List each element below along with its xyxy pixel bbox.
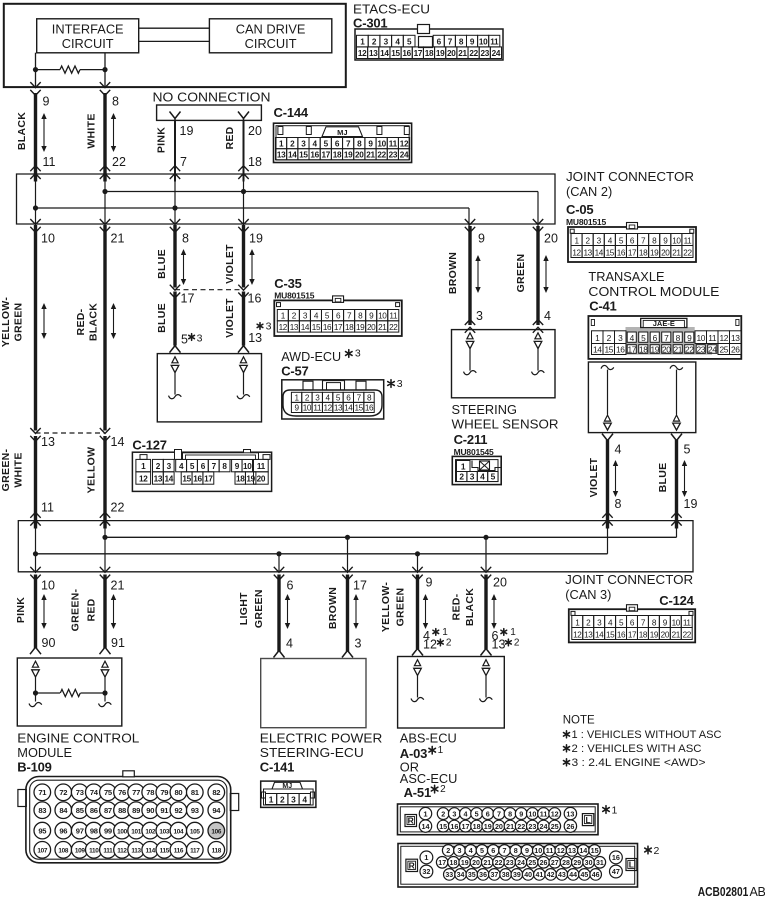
- svg-text:11: 11: [708, 333, 717, 343]
- svg-text:28: 28: [562, 860, 570, 867]
- svg-text:24: 24: [517, 860, 525, 867]
- svg-text:8: 8: [222, 462, 227, 471]
- svg-text:118: 118: [212, 848, 222, 855]
- svg-text:99: 99: [104, 826, 112, 835]
- svg-text:11: 11: [490, 37, 499, 46]
- svg-text:19: 19: [246, 475, 255, 484]
- svg-text:13: 13: [583, 248, 592, 257]
- C-57 note star3: [388, 378, 403, 390]
- svg-text:85: 85: [76, 806, 85, 815]
- terminating resistor ETACS: [36, 66, 106, 73]
- terminal fork pin 20: [238, 112, 249, 123]
- wire YELLOW pin 14 to 22: [103, 436, 106, 529]
- svg-text:7: 7: [212, 462, 217, 471]
- svg-text:C-41: C-41: [589, 299, 616, 314]
- svg-text:NOTE: NOTE: [563, 715, 595, 727]
- svg-text:12: 12: [719, 333, 728, 343]
- svg-text:6: 6: [491, 846, 495, 855]
- engine control module box: [17, 658, 122, 726]
- wire GREEN-WHITE pin 13 to 11: [34, 436, 37, 529]
- wire GREEN-RED pin 21 to 91: [103, 575, 106, 649]
- svg-text:GREEN: GREEN: [13, 303, 25, 342]
- arrow YELLOW-GREEN: [41, 303, 46, 339]
- connector arrow w6 CAN3 bottom: [342, 567, 352, 580]
- svg-text:9: 9: [43, 95, 50, 109]
- svg-text:16: 16: [617, 248, 626, 257]
- svg-text:22: 22: [377, 151, 386, 160]
- svg-text:AB: AB: [750, 885, 765, 897]
- wire w3 through CAN2 joint connector: [174, 174, 176, 224]
- svg-text:21: 21: [111, 232, 125, 246]
- svg-text:20: 20: [662, 345, 671, 355]
- arrow BROWN CAN2: [475, 255, 480, 293]
- svg-text:19: 19: [436, 49, 445, 58]
- svg-text:GREEN: GREEN: [515, 254, 527, 293]
- svg-text:ETACS-ECU: ETACS-ECU: [353, 2, 430, 17]
- arrow VIOLET: [249, 249, 254, 285]
- connector arrow w1 CAN2 bottom: [30, 219, 40, 232]
- svg-text:8: 8: [508, 809, 512, 818]
- connector C-144: [274, 123, 412, 162]
- junction dot w4 line2: [241, 189, 246, 194]
- wire GREEN pin 20 to 4: [536, 226, 539, 325]
- svg-text:12: 12: [572, 248, 581, 257]
- svg-text:10: 10: [377, 139, 386, 148]
- svg-text:22: 22: [683, 630, 692, 639]
- svg-text:15: 15: [591, 846, 599, 855]
- wire RED pin 20 to 18: [243, 120, 245, 181]
- wire BROWN pin 9 to 3: [468, 226, 471, 325]
- svg-text:14: 14: [301, 323, 310, 332]
- svg-text:9: 9: [368, 139, 373, 148]
- svg-text:23: 23: [389, 151, 398, 160]
- wire RED-BLACK pin 21 to 14: [103, 225, 106, 431]
- svg-text:5: 5: [480, 846, 484, 855]
- AWD-ECU box: [157, 354, 261, 422]
- wire label GREEN-WHITE: [0, 448, 25, 491]
- wire PINK pin 19 to 7: [174, 120, 176, 181]
- terminal fork transaxle pin 4: [602, 434, 613, 445]
- svg-text:107: 107: [37, 848, 48, 855]
- svg-text:13: 13: [277, 151, 286, 160]
- svg-text:25: 25: [551, 822, 559, 831]
- svg-text:24: 24: [708, 345, 717, 355]
- svg-text:MU801515: MU801515: [274, 291, 314, 301]
- svg-text:103: 103: [159, 828, 170, 835]
- wire VIOLET pin 19 to 16: [242, 225, 245, 288]
- svg-text:CAN DRIVE: CAN DRIVE: [236, 22, 306, 37]
- arrow GREEN CAN2: [543, 255, 548, 293]
- wire VIOLET pin 4 to 8: [606, 440, 609, 529]
- svg-text:ACB02801: ACB02801: [698, 885, 749, 897]
- wire label RED-BLACK bottom: [451, 588, 477, 626]
- electric power steering labels: [260, 731, 383, 775]
- C-35 label: [274, 276, 314, 301]
- terminating resistor ECM: [36, 689, 106, 696]
- svg-text:93: 93: [191, 806, 199, 815]
- AWD-ECU label: [281, 348, 361, 379]
- connector C-41: [588, 316, 741, 359]
- svg-text:BROWN: BROWN: [447, 252, 459, 294]
- svg-text:22: 22: [111, 501, 125, 515]
- svg-text:10: 10: [303, 404, 312, 413]
- svg-text:17: 17: [204, 475, 213, 484]
- arrow VIOLET transaxle: [613, 460, 618, 497]
- svg-text:C-141: C-141: [260, 760, 294, 775]
- svg-text:13: 13: [334, 404, 343, 413]
- svg-text:5: 5: [491, 472, 496, 482]
- svg-text:5: 5: [324, 139, 329, 148]
- svg-text:2: 2: [441, 809, 445, 818]
- connector arrow w7 CAN3 bottom: [412, 567, 422, 580]
- CAN drive circuit box: [209, 19, 331, 53]
- svg-text:12: 12: [139, 475, 148, 484]
- svg-text:20: 20: [248, 124, 262, 138]
- svg-text:18: 18: [345, 323, 354, 332]
- svg-text:17: 17: [181, 292, 195, 306]
- svg-text:15: 15: [182, 475, 191, 484]
- connector arrow GREEN CAN2 bottom: [533, 219, 543, 232]
- arrow RED-BLACK: [111, 303, 116, 339]
- arrow BROWN bottom: [353, 594, 358, 629]
- connector arrow w2 C-127: [100, 428, 110, 441]
- wire VIOLET pin 16 to 13: [242, 292, 245, 346]
- svg-text:47: 47: [612, 867, 620, 876]
- svg-text:82: 82: [212, 788, 220, 797]
- svg-text:9: 9: [235, 462, 240, 471]
- svg-text:3: 3: [618, 333, 623, 343]
- svg-text:21: 21: [672, 630, 681, 639]
- svg-text:ELECTRIC POWER: ELECTRIC POWER: [260, 731, 383, 746]
- svg-text:5: 5: [641, 333, 646, 343]
- svg-text:7: 7: [664, 333, 669, 343]
- svg-text:2 : VEHICLES WITH ASC: 2 : VEHICLES WITH ASC: [572, 743, 702, 755]
- svg-text:15: 15: [299, 151, 308, 160]
- svg-text:102: 102: [145, 828, 156, 835]
- svg-text:19: 19: [180, 124, 194, 138]
- svg-text:13: 13: [584, 630, 593, 639]
- svg-text:16: 16: [402, 49, 411, 58]
- svg-text:18: 18: [639, 630, 648, 639]
- pin 13 label AWD: [248, 321, 271, 345]
- svg-text:22: 22: [685, 345, 694, 355]
- svg-text:18: 18: [639, 345, 648, 355]
- wire BLACK pin 9 to 11: [34, 93, 37, 182]
- svg-text:2: 2: [156, 462, 161, 471]
- svg-text:10: 10: [696, 333, 705, 343]
- svg-text:C-127: C-127: [132, 438, 166, 453]
- junction dot w5 CAN3: [276, 551, 281, 556]
- svg-text:1: 1: [595, 333, 600, 343]
- pin 5 label: [181, 332, 203, 346]
- svg-text:42: 42: [547, 872, 555, 879]
- svg-text:35: 35: [468, 872, 476, 879]
- bus CAN3 line3: [36, 521, 608, 554]
- joint connector CAN2 labels: [566, 169, 694, 227]
- svg-text:PINK: PINK: [156, 127, 168, 153]
- svg-text:BROWN: BROWN: [327, 587, 339, 629]
- svg-text:GREEN-: GREEN-: [0, 448, 12, 491]
- svg-text:17: 17: [334, 323, 343, 332]
- svg-text:23: 23: [481, 49, 490, 58]
- svg-text:R: R: [409, 861, 415, 871]
- svg-text:6: 6: [437, 37, 442, 46]
- svg-text:11: 11: [389, 312, 398, 321]
- svg-text:77: 77: [132, 788, 140, 797]
- junction dot resistor left: [33, 67, 38, 72]
- wire YELLOW-GREEN pin 9 to 4/12: [416, 575, 419, 650]
- svg-text:17: 17: [322, 151, 331, 160]
- arrow YELLOW-GREEN bottom: [423, 594, 428, 629]
- steering wheel sensor labels: [452, 402, 559, 457]
- svg-text:4: 4: [302, 795, 307, 805]
- svg-text:C-124: C-124: [659, 593, 694, 608]
- svg-text:23: 23: [696, 345, 705, 355]
- connector arrow w2 CAN2 top: [100, 166, 110, 179]
- terminal steering left: [464, 333, 477, 375]
- svg-text:81: 81: [191, 788, 200, 797]
- terminal fork ECM 90: [30, 643, 41, 654]
- svg-text:12: 12: [279, 323, 288, 332]
- NO CONNECTION box: [157, 105, 262, 120]
- svg-text:TRANSAXLE: TRANSAXLE: [588, 269, 664, 284]
- svg-text:15: 15: [606, 248, 615, 257]
- wire w2 through CAN3: [104, 521, 106, 572]
- wire label RED-BLACK: [75, 303, 100, 341]
- svg-text:19: 19: [249, 232, 263, 246]
- svg-text:17: 17: [438, 860, 446, 867]
- arrow PINK: [41, 594, 46, 629]
- svg-text:AWD-ECU: AWD-ECU: [281, 349, 341, 364]
- svg-text:3: 3: [470, 472, 475, 482]
- svg-text:92: 92: [174, 806, 182, 815]
- svg-text:7: 7: [180, 155, 187, 169]
- svg-text:4: 4: [464, 809, 468, 818]
- svg-text:21: 21: [483, 860, 491, 867]
- svg-text:5: 5: [684, 443, 691, 457]
- svg-text:15: 15: [312, 323, 321, 332]
- pin 4 and 12 labels ABS: [423, 627, 452, 652]
- svg-text:22: 22: [469, 49, 478, 58]
- arrow GREEN-RED: [111, 594, 116, 629]
- connector arrow w4 CAN2 top: [238, 166, 248, 179]
- svg-text:96: 96: [59, 826, 67, 835]
- svg-text:13: 13: [41, 435, 55, 449]
- svg-text:38: 38: [502, 872, 510, 879]
- svg-text:13: 13: [369, 49, 378, 58]
- svg-text:91: 91: [111, 636, 125, 650]
- svg-text:MJ: MJ: [282, 783, 292, 790]
- svg-text:20: 20: [367, 323, 376, 332]
- svg-text:10: 10: [41, 232, 55, 246]
- svg-text:1: 1: [141, 462, 146, 471]
- svg-text:16: 16: [310, 151, 319, 160]
- svg-text:11: 11: [389, 139, 398, 148]
- svg-text:19: 19: [484, 822, 492, 831]
- svg-text:10: 10: [378, 312, 387, 321]
- connector C-211: [452, 456, 501, 484]
- svg-text:20: 20: [472, 860, 480, 867]
- svg-text:22: 22: [495, 860, 503, 867]
- wire BLUE pin 17 to 5: [173, 292, 176, 346]
- svg-text:4: 4: [179, 462, 184, 471]
- note block: [563, 715, 722, 770]
- svg-text:ENGINE CONTROL: ENGINE CONTROL: [17, 731, 139, 746]
- junction dot w7 CAN3: [415, 551, 420, 556]
- svg-text:88: 88: [118, 806, 126, 815]
- terminal transaxle right: [670, 365, 683, 430]
- svg-text:24: 24: [492, 49, 501, 58]
- connector C-35: [274, 300, 402, 336]
- svg-text:6: 6: [201, 462, 206, 471]
- svg-text:9: 9: [525, 846, 529, 855]
- svg-text:24: 24: [400, 151, 409, 160]
- in-line connector C-35 dashed line: [175, 289, 244, 291]
- svg-text:11: 11: [540, 809, 548, 818]
- svg-text:1: 1: [442, 627, 448, 638]
- svg-text:43: 43: [558, 872, 566, 879]
- wire BLUE pin 5 to 19: [675, 440, 678, 529]
- junction dot ECM left: [33, 690, 38, 695]
- connector arrow w3 CAN2 bottom: [170, 219, 180, 232]
- svg-text:19: 19: [356, 323, 365, 332]
- connector arrow w4 C-35: [238, 285, 248, 298]
- svg-text:15: 15: [391, 49, 400, 58]
- svg-text:20: 20: [544, 232, 558, 246]
- svg-text:16: 16: [323, 323, 332, 332]
- connector arrow w4 CAN2 bottom: [238, 219, 248, 232]
- svg-text:2: 2: [372, 37, 377, 46]
- svg-text:16: 16: [450, 822, 458, 831]
- svg-text:14: 14: [164, 475, 173, 484]
- svg-text:3: 3: [384, 37, 389, 46]
- svg-text:3: 3: [452, 809, 456, 818]
- svg-text:14: 14: [595, 248, 604, 257]
- svg-text:117: 117: [190, 848, 200, 855]
- svg-text:115: 115: [160, 848, 170, 855]
- svg-text:31: 31: [596, 860, 604, 867]
- svg-text:NO CONNECTION: NO CONNECTION: [153, 90, 271, 105]
- wire BROWN pin 17 to 3: [346, 575, 349, 652]
- svg-text:YELLOW-: YELLOW-: [380, 582, 392, 633]
- junction dot w2 line2: [102, 189, 107, 194]
- svg-text:114: 114: [145, 848, 155, 855]
- svg-text:3: 3: [301, 139, 306, 148]
- svg-text:6: 6: [486, 809, 490, 818]
- svg-text:5: 5: [190, 462, 195, 471]
- svg-text:13: 13: [566, 809, 574, 818]
- svg-text:13: 13: [154, 475, 163, 484]
- svg-text:27: 27: [551, 860, 559, 867]
- svg-text:GREEN: GREEN: [395, 588, 407, 627]
- svg-text:14: 14: [422, 822, 430, 831]
- svg-text:WHITE: WHITE: [13, 452, 25, 487]
- svg-text:22: 22: [112, 155, 126, 169]
- svg-text:34: 34: [457, 872, 465, 879]
- svg-text:3 : 2.4L ENGINE <AWD>: 3 : 2.4L ENGINE <AWD>: [572, 757, 706, 769]
- connector arrow w2 CAN2 bottom: [100, 219, 110, 232]
- svg-text:2: 2: [440, 784, 446, 795]
- svg-text:2: 2: [446, 638, 452, 649]
- joint connector CAN2 bus box: [17, 174, 556, 224]
- svg-text:1: 1: [612, 804, 618, 816]
- wire BLUE pin 8 to 17: [173, 225, 176, 288]
- svg-text:100: 100: [117, 828, 128, 835]
- svg-text:18: 18: [333, 151, 342, 160]
- connector arrow blue CAN3 top: [671, 512, 681, 525]
- junction dot resistor right: [102, 67, 107, 72]
- connector arrow w3 CAN2 top: [170, 166, 180, 179]
- svg-text:45: 45: [581, 872, 589, 879]
- svg-text:112: 112: [117, 848, 127, 855]
- svg-text:83: 83: [38, 806, 46, 815]
- svg-text:19: 19: [650, 345, 659, 355]
- A-51 note star2: [645, 845, 660, 857]
- svg-text:20: 20: [661, 630, 670, 639]
- terminal fork transaxle pin 5: [671, 434, 682, 445]
- terminal fork EPS 4: [274, 647, 285, 658]
- svg-text:23: 23: [506, 860, 514, 867]
- wire w4 through CAN2 joint connector: [243, 174, 245, 224]
- svg-text:5: 5: [407, 37, 412, 46]
- connector arrow ETACS pin 9: [30, 82, 40, 95]
- svg-text:2: 2: [654, 845, 660, 857]
- svg-text:CIRCUIT: CIRCUIT: [62, 36, 114, 51]
- svg-text:BLACK: BLACK: [16, 112, 28, 150]
- svg-text:3: 3: [355, 637, 362, 651]
- svg-text:95: 95: [38, 826, 47, 835]
- svg-text:MU801515: MU801515: [566, 217, 606, 227]
- svg-text:111: 111: [103, 848, 113, 855]
- terminal ABS left: [411, 660, 424, 702]
- svg-text:7: 7: [497, 809, 501, 818]
- wire between interface and CAN drive circuit: [139, 28, 210, 41]
- svg-text:PINK: PINK: [15, 597, 27, 623]
- svg-text:26: 26: [731, 345, 740, 355]
- svg-text:16: 16: [193, 475, 202, 484]
- svg-text:4: 4: [615, 443, 622, 457]
- svg-text:3: 3: [266, 321, 272, 333]
- svg-text:6: 6: [335, 139, 340, 148]
- svg-text:23: 23: [528, 822, 536, 831]
- svg-text:80: 80: [174, 788, 182, 797]
- connector arrow steering pin 3: [465, 320, 475, 333]
- svg-text:13: 13: [290, 323, 299, 332]
- svg-text:10: 10: [528, 809, 536, 818]
- svg-text:A-51: A-51: [404, 785, 431, 800]
- svg-text:74: 74: [90, 788, 99, 797]
- connector arrow w3 C-35: [170, 285, 180, 298]
- svg-text:13: 13: [248, 331, 262, 345]
- arrow WHITE: [111, 113, 116, 152]
- connector arrow BROWN CAN2 bottom: [465, 219, 475, 232]
- svg-text:CONTROL MODULE: CONTROL MODULE: [588, 284, 719, 299]
- svg-text:20: 20: [493, 576, 507, 590]
- terminal ECM left: [29, 661, 42, 706]
- svg-text:9: 9: [470, 37, 475, 46]
- svg-text:3: 3: [355, 348, 361, 360]
- svg-text:BLACK: BLACK: [464, 588, 476, 626]
- svg-text:16: 16: [616, 345, 625, 355]
- svg-text:12: 12: [323, 404, 332, 413]
- svg-text:18: 18: [639, 248, 648, 257]
- wire w8 stub CAN3: [485, 537, 487, 572]
- junction dot w8 CAN3: [483, 535, 488, 540]
- terminal fork ABS left: [412, 645, 423, 656]
- svg-text:3: 3: [167, 462, 172, 471]
- svg-text:5: 5: [181, 333, 188, 347]
- svg-text:C-57: C-57: [281, 364, 308, 379]
